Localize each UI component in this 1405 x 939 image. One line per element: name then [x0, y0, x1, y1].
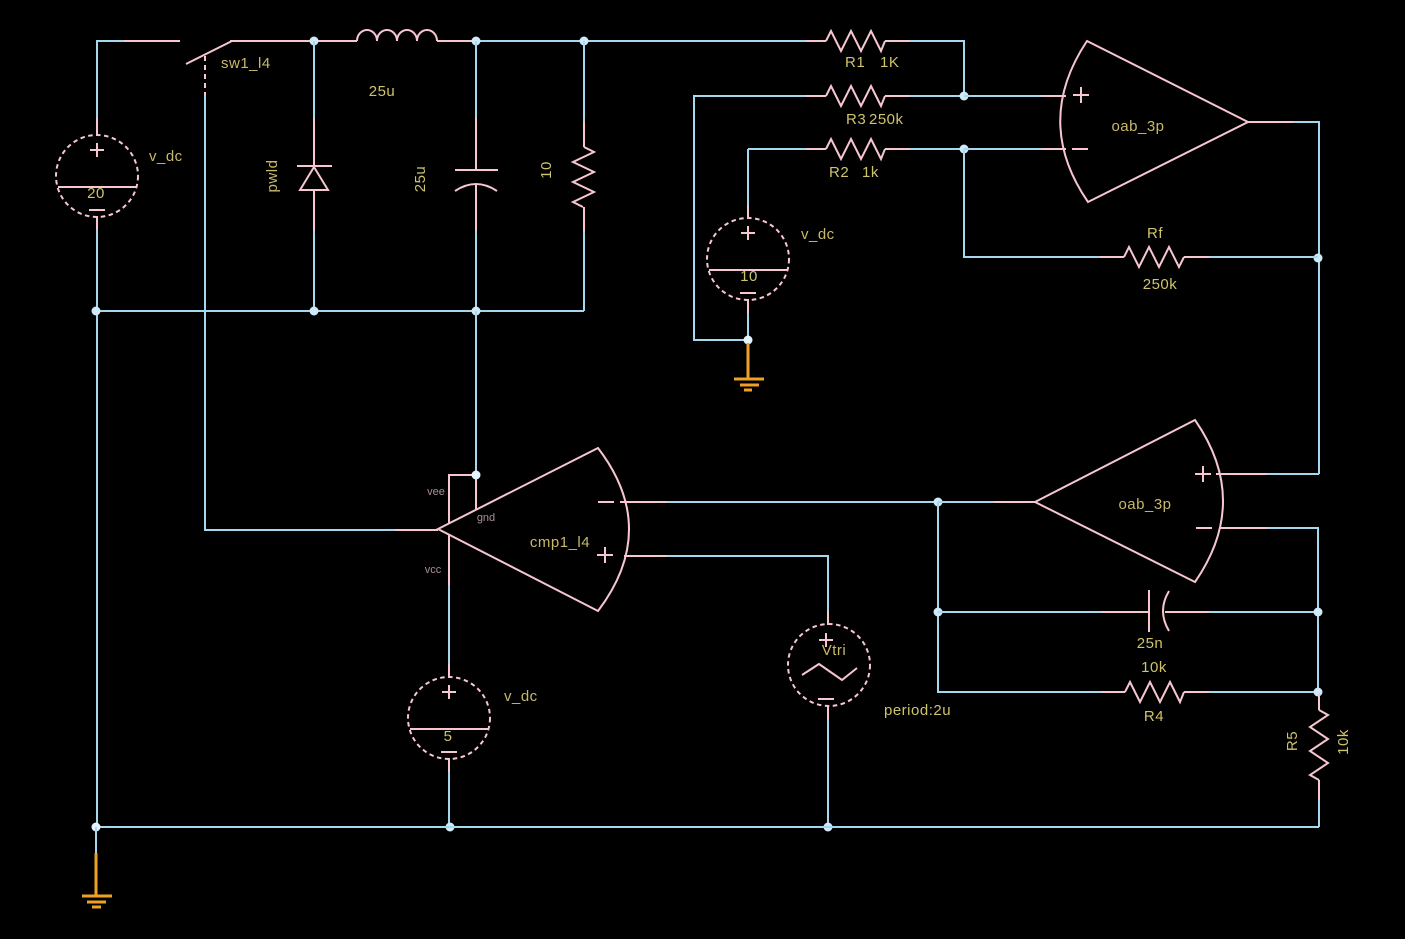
- node junction v_dc 10 / R3 loop / ground: [744, 336, 753, 345]
- node junction bottom-left ground: [92, 823, 101, 832]
- wire top rail to R1: [476, 40, 806, 42]
- resistor R3 left lead: [806, 95, 826, 97]
- wire v_dc 10 bottom to ground junction: [747, 313, 749, 340]
- svg-text:10k: 10k: [1141, 659, 1167, 676]
- wire op-amp U2 minus output to right column down: [1267, 528, 1318, 693]
- Vtri bottom stub: [827, 705, 829, 720]
- svg-text:1K: 1K: [880, 54, 899, 71]
- switch sw1_l4 control terminal dashed: [204, 56, 206, 95]
- svg-text:25n: 25n: [1137, 635, 1164, 652]
- svg-text:vcc: vcc: [425, 564, 442, 576]
- comparator plus sign: [597, 547, 613, 563]
- wire junction to op-amp U2 input: [938, 501, 994, 503]
- v_dc 10 minus sign: [740, 292, 756, 294]
- svg-text:vee: vee: [427, 486, 445, 498]
- v_dc 10 chord line: [709, 269, 787, 271]
- svg-text:oab_3p: oab_3p: [1118, 496, 1171, 513]
- op-amp U2 minus output stub: [1219, 527, 1267, 529]
- wire op-amp U1 plus input: [964, 95, 1042, 97]
- capacitor C 25u curved bottom plate: [455, 184, 497, 191]
- svg-text:250k: 250k: [869, 111, 904, 128]
- Vtri minus sign: [818, 698, 834, 700]
- svg-text:1k: 1k: [862, 164, 879, 181]
- capacitor C 25u bottom lead: [475, 184, 477, 231]
- resistor R1 right lead: [885, 40, 910, 42]
- node junction Vtri on bottom rail: [824, 823, 833, 832]
- switch sw1_l4 output lead: [230, 40, 316, 42]
- svg-text:oab_3p: oab_3p: [1111, 118, 1164, 135]
- comparator vcc pin: [448, 535, 450, 586]
- capacitor C 25u top plate: [455, 169, 498, 171]
- svg-text:period:2u: period:2u: [884, 702, 951, 719]
- v_dc 10 top stub: [747, 205, 749, 219]
- wire R3 row left loop down to v_dc 10 ground: [694, 96, 806, 340]
- svg-text:25u: 25u: [369, 83, 396, 100]
- v_dc 5 plus sign: [442, 685, 456, 699]
- resistor R5 top lead: [1318, 693, 1320, 710]
- op-amp U1 output stub: [1248, 121, 1293, 123]
- comparator gnd pin: [475, 475, 477, 509]
- wire top-left corner from v_dc source up to switch: [97, 41, 126, 118]
- v_dc 5 bottom stub: [448, 758, 450, 773]
- wire left vertical from v_dc down to bottom rail: [96, 230, 98, 827]
- wire op-amp U2 input column down to R4 row: [938, 502, 1102, 692]
- ground symbol bottom-left: [95, 853, 98, 895]
- node junction inductor-capacitor: [472, 37, 481, 46]
- diode pwld cathode bar: [297, 165, 332, 167]
- v_dc 10 bottom stub: [747, 299, 749, 314]
- wire R2 row corner to v_dc 10: [748, 149, 806, 206]
- node junction switch-inductor: [310, 37, 319, 46]
- svg-text:20: 20: [87, 185, 105, 202]
- load resistor 10 top lead: [583, 41, 585, 122]
- resistor R3 zigzag: [826, 86, 885, 106]
- resistor R2 left lead: [806, 148, 826, 150]
- wire comparator minus output to op-amp U2: [667, 501, 938, 503]
- Vtri top stub: [827, 611, 829, 625]
- comparator plus output stub: [624, 555, 667, 557]
- inductor L 25u: [357, 30, 437, 41]
- wire R2 right to junction: [910, 148, 964, 150]
- svg-text:cmp1_l4: cmp1_l4: [530, 534, 590, 551]
- node junction R1/R3 at op-amp plus input: [960, 92, 969, 101]
- node junction left vertical / middle rail: [92, 307, 101, 316]
- svg-text:10: 10: [538, 161, 555, 179]
- resistor R4 right lead: [1184, 691, 1209, 693]
- wire minus input column down to Rf row: [964, 149, 1102, 257]
- resistor R5 bottom lead: [1318, 780, 1320, 801]
- resistor Rf zigzag: [1124, 247, 1184, 267]
- resistor Rf left lead: [1100, 256, 1124, 258]
- svg-text:pwld: pwld: [264, 160, 281, 193]
- wire R1 right to op-amp plus input column: [910, 41, 964, 96]
- inductor L 25u left lead: [316, 40, 357, 42]
- node junction capacitor bottom on middle rail: [472, 307, 481, 316]
- resistor R4 left lead: [1101, 691, 1125, 693]
- svg-text:v_dc: v_dc: [149, 148, 183, 165]
- svg-text:5: 5: [444, 728, 453, 745]
- wire ground drop: [95, 827, 97, 854]
- load resistor 10 bottom lead: [583, 207, 585, 231]
- wire R5 bottom to rail corner: [1318, 800, 1320, 827]
- op-amp U2 minus sign: [1196, 527, 1212, 529]
- node junction capacitor 25n left: [934, 608, 943, 617]
- wire middle rail: [96, 310, 584, 312]
- svg-text:sw1_l4: sw1_l4: [221, 55, 271, 72]
- svg-text:gnd: gnd: [477, 512, 495, 524]
- wire comparator plus output to Vtri: [667, 556, 828, 613]
- svg-text:v_dc: v_dc: [801, 226, 835, 243]
- diode pwld top lead: [313, 41, 315, 120]
- svg-text:R2: R2: [829, 164, 849, 181]
- op-amp U1 minus sign: [1072, 148, 1088, 150]
- resistor R1 left lead: [806, 40, 826, 42]
- svg-text:Vtri: Vtri: [822, 642, 847, 659]
- svg-text:R4: R4: [1144, 708, 1164, 725]
- v_dc 10 plus sign: [741, 226, 755, 240]
- node junction Rf right on column: [1314, 254, 1323, 263]
- wire R4 right to column: [1209, 691, 1318, 693]
- comparator vee pin: [449, 475, 476, 523]
- voltage source v_dc 10 circle: [707, 218, 789, 300]
- capacitor C 25n left lead: [1101, 611, 1148, 613]
- voltage source v_dc 20 circle: [56, 135, 138, 217]
- Vtri plus sign: [819, 633, 833, 647]
- resistor R2 right lead: [885, 148, 910, 150]
- svg-text:10: 10: [740, 268, 758, 285]
- wire capacitor 25n right to column: [1209, 611, 1318, 613]
- svg-text:R5: R5: [1284, 731, 1301, 751]
- svg-text:25u: 25u: [412, 166, 429, 193]
- capacitor C 25n curved right plate: [1163, 591, 1169, 631]
- v_dc 20 chord line: [58, 186, 136, 188]
- capacitor C 25n right lead: [1165, 611, 1209, 613]
- diode pwld bottom lead: [313, 190, 315, 231]
- source Vtri circle: [788, 624, 870, 706]
- node junction R4/R5 on right column: [1314, 688, 1323, 697]
- resistor R5 zigzag: [1310, 710, 1328, 780]
- v_dc 5 minus sign: [441, 751, 457, 753]
- resistor Rf right lead: [1184, 256, 1209, 258]
- wire capacitor 25n row left: [938, 611, 1102, 613]
- node junction capacitor 25n right: [1314, 608, 1323, 617]
- op-amp U2 plus output stub: [1216, 473, 1267, 475]
- node junction comparator vee/gnd tap: [472, 471, 481, 480]
- svg-text:Rf: Rf: [1147, 225, 1163, 242]
- resistor R4 zigzag: [1125, 682, 1184, 702]
- wire Vtri bottom to rail: [827, 720, 829, 827]
- v_dc 5 top stub: [448, 664, 450, 678]
- ground symbol at v_dc 10: [747, 343, 750, 378]
- op-amp U2 input stub: [993, 501, 1035, 503]
- comparator cmp1_l4 body: [438, 448, 629, 611]
- v_dc 20 plus sign: [90, 143, 104, 157]
- op-amp U1 oab_3p body: [1060, 41, 1248, 202]
- node junction R2 at op-amp minus input: [960, 145, 969, 154]
- node junction diode bottom on middle rail: [310, 307, 319, 316]
- load resistor 10 zigzag: [573, 147, 594, 207]
- Vtri triangle wave: [802, 664, 857, 680]
- wire op-amp U1 minus input: [964, 148, 1042, 150]
- op-amp U1 plus sign: [1073, 87, 1089, 103]
- comparator minus sign: [598, 501, 614, 503]
- node junction load resistor top: [580, 37, 589, 46]
- voltage source v_dc 5 circle: [408, 677, 490, 759]
- svg-text:R1: R1: [845, 54, 865, 71]
- wire op-amp U1 output to right column: [1293, 122, 1319, 474]
- v_dc 20 minus sign: [89, 209, 105, 211]
- svg-text:R3: R3: [846, 111, 866, 128]
- diode pwld triangle: [300, 167, 328, 190]
- switch sw1_l4 fixed contact lead: [124, 40, 180, 42]
- op-amp U2 oab_3p body: [1035, 420, 1223, 582]
- node junction comparator output net at op-amp U2 input: [934, 498, 943, 507]
- capacitor C 25n left plate: [1148, 590, 1150, 632]
- wire v_dc 5 bottom to rail: [448, 772, 450, 827]
- resistor R3 right lead: [885, 95, 910, 97]
- switch sw1_l4 arm: [186, 41, 232, 64]
- wire op-amp U2 plus output to right column: [1267, 473, 1319, 475]
- wire switch control line down to comparator output: [205, 95, 395, 530]
- svg-text:10k: 10k: [1335, 729, 1352, 755]
- resistor R2 zigzag: [826, 139, 885, 159]
- wire Rf right to column: [1209, 256, 1318, 258]
- wire capacitor column down to comparator vee junction: [475, 311, 477, 475]
- wire R3 right to junction: [910, 95, 964, 97]
- svg-text:250k: 250k: [1143, 276, 1178, 293]
- v_dc 20 top stub: [96, 118, 98, 136]
- v_dc 5 chord line: [410, 728, 488, 730]
- resistor R1 zigzag: [826, 31, 885, 51]
- v_dc 20 bottom stub: [96, 216, 98, 231]
- op-amp U2 plus sign: [1195, 466, 1211, 482]
- inductor right lead: [437, 40, 476, 42]
- comparator output stub: [395, 529, 438, 531]
- wire vcc down to v_dc 5: [448, 585, 450, 664]
- svg-text:v_dc: v_dc: [504, 688, 538, 705]
- capacitor C 25u top lead: [475, 41, 477, 120]
- wire bottom rail: [96, 826, 1319, 828]
- comparator minus output stub: [620, 501, 667, 503]
- node junction v_dc 5 on bottom rail: [446, 823, 455, 832]
